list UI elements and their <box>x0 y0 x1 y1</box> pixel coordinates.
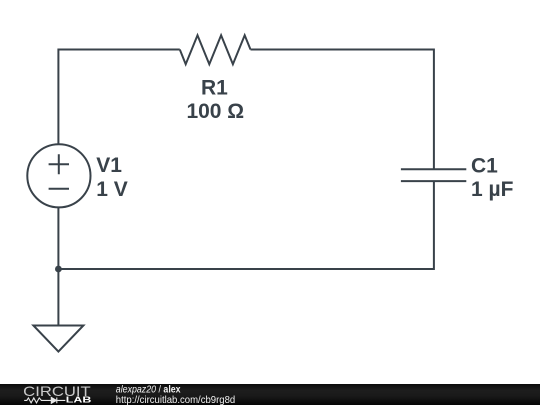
footer bar <box>0 384 540 405</box>
svg-text:alexpaz20 / alex: alexpaz20 / alex <box>116 384 181 395</box>
svg-text:R1: R1 <box>201 76 228 99</box>
logo diode <box>51 398 65 404</box>
V1 plus sign <box>49 154 69 174</box>
wire top-left horizontal (corner to R1 left lead) <box>58 50 179 145</box>
svg-text:http://circuitlab.com/cb9rg8d: http://circuitlab.com/cb9rg8d <box>116 395 236 405</box>
wire C1 bottom plate to bottom-right corner to junction <box>58 181 434 269</box>
ground symbol <box>33 326 83 352</box>
svg-text:1 µF: 1 µF <box>471 178 514 201</box>
wire junction to ground <box>57 269 59 326</box>
resistor R1 <box>180 35 251 64</box>
svg-text:V1: V1 <box>96 154 122 177</box>
voltage source V1 circle <box>27 144 90 207</box>
svg-text:100 Ω: 100 Ω <box>186 100 244 123</box>
capacitor C1 bottom plate <box>401 180 466 182</box>
wire V1 bottom to junction <box>57 207 59 269</box>
junction node dot <box>55 266 62 273</box>
logo resistor zigzag <box>24 398 51 403</box>
wire R1 right lead to top-right corner down to C1 top plate <box>251 50 434 170</box>
svg-text:C1: C1 <box>471 154 498 177</box>
V1 minus sign <box>49 188 69 190</box>
capacitor C1 top plate <box>401 168 466 170</box>
svg-text:1 V: 1 V <box>96 178 128 201</box>
svg-text:LAB: LAB <box>66 396 92 405</box>
